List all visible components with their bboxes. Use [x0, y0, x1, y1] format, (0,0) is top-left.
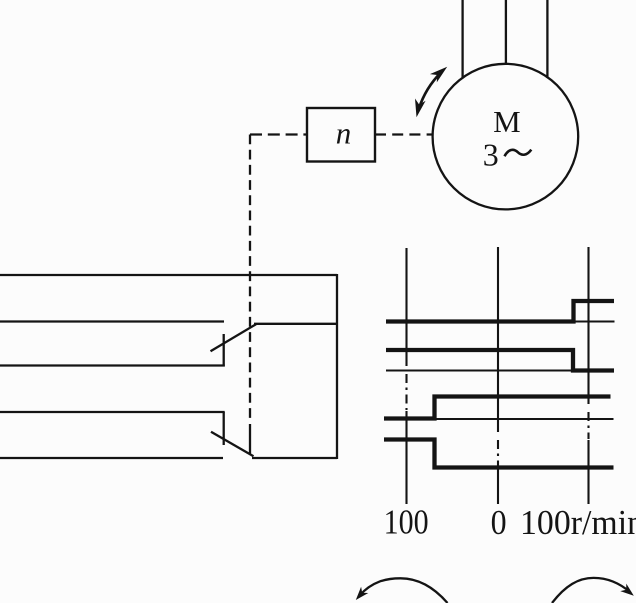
svg-text:100: 100 [384, 503, 429, 542]
svg-text:M: M [493, 104, 521, 139]
svg-text:3: 3 [483, 137, 499, 173]
svg-text:100r/min: 100r/min [520, 503, 636, 542]
svg-text:0: 0 [491, 503, 507, 542]
svg-text:n: n [336, 116, 352, 151]
